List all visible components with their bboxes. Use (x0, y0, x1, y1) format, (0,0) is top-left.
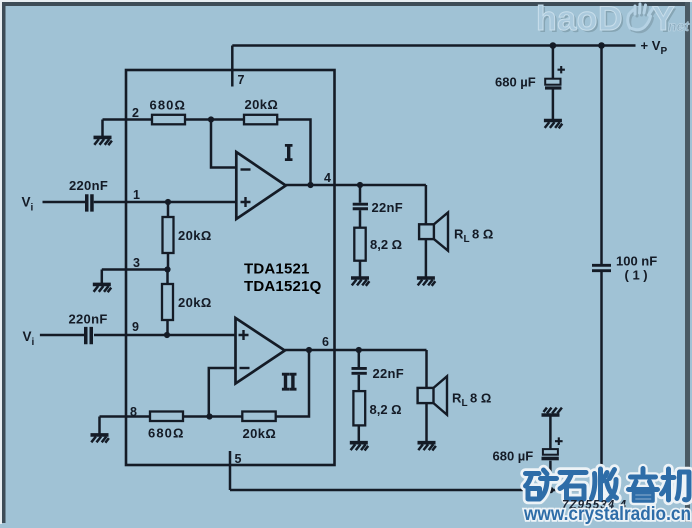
svg-text:8 Ω: 8 Ω (472, 227, 493, 242)
svg-text:4: 4 (324, 171, 331, 185)
ground pin8 (91, 435, 109, 443)
wire right branch lower (600, 272, 603, 490)
wire speaker LS2 to ground (425, 403, 428, 441)
wire 20k to feedback corner (277, 120, 311, 186)
wire to speaker LS1 (425, 185, 428, 224)
wire 20k R4 bottom lead (166, 320, 169, 335)
wire pin2 row (103, 118, 153, 121)
label Vi pin9 (23, 329, 35, 348)
wire +Vp top rail (232, 44, 635, 47)
wire 20k to feedback corner channel II (276, 350, 309, 417)
svg-text:20kΩ: 20kΩ (178, 295, 212, 310)
svg-text:22nF: 22nF (372, 200, 404, 215)
svg-text:220nF: 220nF (69, 178, 108, 193)
logo haoDIY.net watermark (536, 0, 690, 40)
ground 680uF C5 (544, 121, 562, 129)
op-amp I plus sign (241, 197, 251, 207)
wire 22nF C3 to 8.2R (359, 210, 362, 228)
op-amp II minus sign (240, 367, 250, 369)
wire pin3 ground stub (101, 270, 104, 284)
capacitor 680uF C5 electrolytic (545, 66, 565, 90)
wire minus input op-amp I (211, 120, 236, 168)
svg-text:680Ω: 680Ω (150, 98, 187, 113)
resistor 8.2R R8 (353, 391, 365, 425)
wire 22nF C3 top lead (359, 185, 362, 203)
wire 20k R3 bottom lead (167, 253, 170, 270)
label RL 8R channel I (454, 227, 493, 246)
wire pin3 row (102, 268, 168, 271)
resistor 20k R3 (pin1-pin3) (163, 217, 174, 253)
label amp I roman (285, 144, 293, 161)
svg-text:5: 5 (235, 452, 242, 466)
svg-text:8 Ω: 8 Ω (470, 391, 491, 406)
ground 680uF C6 inverted (542, 408, 562, 415)
wire pin8 row (100, 415, 151, 418)
svg-text:220nF: 220nF (69, 312, 108, 327)
wire 680uF C6 ground stub (549, 417, 552, 450)
wire Vi input row pin1 (43, 201, 86, 204)
op-amp II plus sign (239, 330, 249, 340)
svg-text:9: 9 (132, 320, 139, 334)
svg-text:TDA1521: TDA1521 (244, 261, 310, 278)
svg-text:8,2 Ω: 8,2 Ω (370, 402, 402, 417)
svg-text:V: V (23, 329, 32, 344)
wire speaker LS1 to ground (425, 239, 428, 277)
wire 20k R4 top lead (166, 270, 169, 285)
ground pin2 (94, 137, 112, 145)
label Vi pin1 (22, 195, 34, 214)
svg-text:100 nF: 100 nF (616, 254, 657, 269)
capacitor 22nF C3 (353, 203, 368, 211)
svg-text:8,2 Ω: 8,2 Ω (370, 237, 402, 252)
wire minus input op-amp II (209, 368, 236, 417)
capacitor 220nF C2 (84, 327, 93, 344)
ground 8.2R channel I (351, 278, 369, 286)
wire 680uF C5 to ground (552, 90, 555, 120)
svg-text:680Ω: 680Ω (148, 426, 185, 441)
wire op-amp I output row (286, 184, 426, 187)
svg-text:20kΩ: 20kΩ (245, 97, 279, 112)
ground speaker LS1 (417, 278, 435, 286)
svg-text:8: 8 (130, 405, 137, 419)
svg-text:TDA1521Q: TDA1521Q (244, 278, 322, 295)
svg-text:haoD: haoD (536, 0, 623, 38)
wire 22nF C4 top lead (358, 350, 361, 367)
capacitor 680uF C6 electrolytic (542, 437, 563, 460)
wire pin5 stub (229, 451, 232, 490)
wire right branch upper (to 100nF) (600, 46, 603, 265)
op-amp U1a (I) (236, 152, 285, 219)
svg-text:R: R (454, 227, 464, 242)
capacitor 22nF C4 (352, 367, 367, 375)
capacitor 220nF C1 (85, 194, 94, 211)
wire to speaker LS2 (425, 350, 428, 388)
ground speaker LS2 (418, 443, 436, 451)
svg-text:20kΩ: 20kΩ (243, 426, 277, 441)
resistor 20k R4 (pin3-pin9) (162, 284, 173, 320)
speaker LS1 (419, 213, 448, 251)
svg-text:22nF: 22nF (373, 366, 405, 381)
speaker LS2 (418, 376, 447, 415)
svg-text:1: 1 (133, 188, 140, 202)
wire pin8 ground stub (98, 417, 101, 434)
resistor 680R R1 (pin2 feedback) (152, 115, 185, 125)
wire between 680R and 20k (channel I feedback row) (185, 118, 244, 121)
wire pin7 stub (231, 46, 234, 87)
ground 8.2R channel II (350, 443, 368, 451)
wire op-amp II output row (285, 349, 427, 352)
svg-text:2: 2 (132, 106, 139, 120)
svg-text:+ V: + V (641, 38, 661, 53)
wire 680uF C5 top lead (552, 46, 555, 79)
svg-text:L: L (462, 398, 468, 409)
wire pin2 ground stub (101, 120, 104, 137)
svg-text:L: L (464, 234, 470, 245)
label amp II roman (282, 373, 297, 391)
wire 680uF C6 bottom lead (549, 461, 552, 490)
svg-text:6: 6 (322, 335, 329, 349)
op-amp I minus sign (241, 168, 251, 170)
wire 220nF C2 to op-amp II plus (94, 334, 236, 337)
label +Vp (641, 38, 668, 57)
resistor 20k R6 (channel II feedback) (242, 412, 275, 422)
wire 8.2R R8 to ground (358, 425, 361, 441)
watermark crystalradio chinese glyphs (526, 469, 690, 502)
svg-text:i: i (32, 337, 35, 348)
svg-text:( 1 ): ( 1 ) (625, 268, 648, 283)
svg-text:R: R (452, 391, 462, 406)
capacitor 100nF C7 (592, 264, 611, 272)
svg-text:680 µF: 680 µF (495, 75, 536, 90)
svg-text:3: 3 (133, 256, 140, 270)
svg-text:7: 7 (238, 73, 245, 87)
svg-text:www.crystalradio.cn: www.crystalradio.cn (523, 504, 691, 525)
wire 220nF C1 to op-amp I plus (94, 201, 237, 204)
resistor 20k R2 (channel I feedback) (244, 115, 277, 125)
resistor 680R R5 (pin8 feedback) (150, 412, 183, 422)
wire 8.2R R7 to ground (359, 261, 362, 277)
ground pin3 (93, 284, 111, 292)
svg-text:P: P (661, 46, 668, 57)
wire between 680R and 20k (channel II feedback row) (183, 415, 242, 418)
svg-text:V: V (22, 195, 31, 210)
wire bottom rail (230, 489, 602, 492)
IC box U1 TDA1521 (126, 70, 335, 465)
svg-text:20kΩ: 20kΩ (178, 228, 212, 243)
op-amp U1b (II) (236, 318, 285, 384)
resistor 8.2R R7 (354, 228, 365, 261)
wire 22nF C4 to 8.2R (358, 375, 361, 391)
wire Vi input row pin9 (40, 334, 84, 337)
svg-text:net: net (668, 18, 690, 34)
wire 20k R3 top lead (167, 202, 170, 217)
label RL 8R channel II (452, 391, 491, 410)
svg-text:680 µF: 680 µF (493, 449, 534, 464)
svg-text:i: i (31, 203, 34, 214)
